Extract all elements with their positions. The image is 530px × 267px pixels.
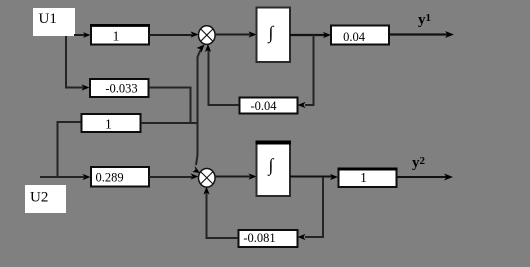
wire U2 riser to gain B12 (58, 122, 82, 176)
svg-text:-0.04: -0.04 (250, 99, 277, 113)
gain B21 value -0.033 (90, 79, 149, 97)
wire cross dropper down to sum S2 (193, 123, 201, 173)
sum S2 (199, 169, 216, 188)
svg-text:1: 1 (105, 117, 112, 132)
input label U2 (25, 185, 66, 213)
node N2 feedback tap (298, 177, 324, 240)
wire gain A22 to sum S2 (203, 187, 238, 239)
gain A22 value -0.081 (239, 230, 298, 247)
integrator I2 (256, 142, 292, 197)
input label U1 (33, 8, 75, 36)
wire integrator I2 to gain C2 (290, 174, 338, 180)
wire sum S2 to integrator I2 (215, 173, 257, 179)
svg-text:1: 1 (360, 170, 367, 185)
wire gain A11 to sum S1 (205, 44, 239, 105)
svg-text:-0.081: -0.081 (243, 231, 275, 245)
wire sum S1 to integrator I1 (215, 31, 257, 37)
gain C2 value 1 (338, 169, 398, 188)
label y2 (412, 155, 426, 171)
wire U1 to gain B11 (74, 32, 91, 38)
sum S1 (199, 26, 216, 45)
wire cross riser up to sum S1 (197, 45, 205, 124)
output arrow y1 (389, 31, 454, 38)
wire gain B22 to sum S2 (149, 173, 199, 179)
svg-text:U2: U2 (30, 190, 48, 206)
wire gain B12 output to cross node (141, 122, 198, 124)
svg-text:0.289: 0.289 (95, 171, 123, 185)
gain B11 value 1 (90, 25, 150, 45)
integrator I1 (257, 8, 291, 63)
wire U2 to gain B22 (40, 174, 91, 180)
wire gain B11 to sum S1 (149, 31, 199, 37)
gain C1 value 0.04 (331, 26, 389, 45)
wire gain B21 output down to cross rail (149, 88, 191, 124)
svg-text:0.04: 0.04 (343, 30, 366, 44)
wire integrator I1 to gain C1 (290, 32, 331, 38)
node N1 feedback tap (298, 35, 314, 108)
label y1 (418, 12, 431, 28)
svg-text:U1: U1 (39, 11, 57, 27)
svg-text:-0.033: -0.033 (105, 82, 137, 96)
gain B22 value 0.289 (91, 167, 149, 187)
wire U1 drop to gain B21 (66, 36, 90, 91)
gain B12 value 1 (82, 114, 141, 132)
svg-text:1: 1 (113, 29, 120, 44)
output arrow y2 (397, 174, 453, 181)
gain A11 value -0.04 (240, 98, 298, 114)
